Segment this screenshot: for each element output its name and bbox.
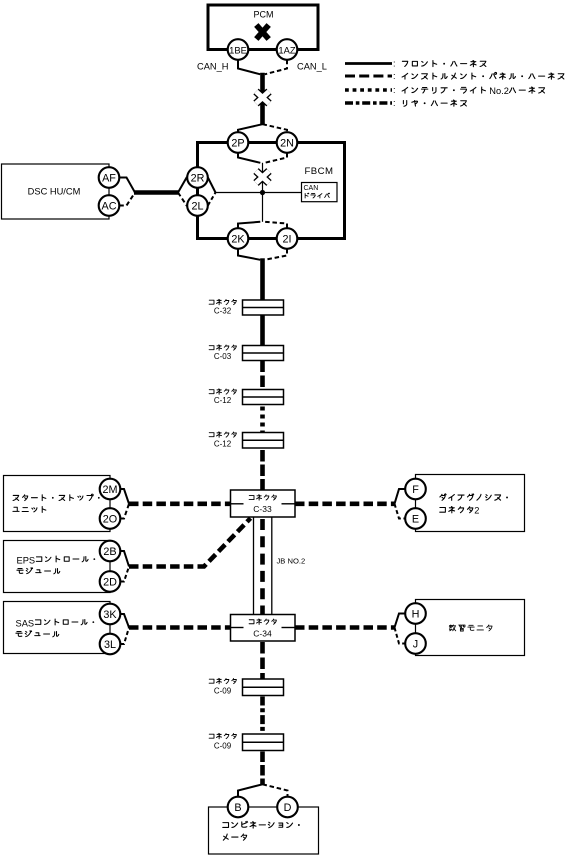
svg-text:3K: 3K xyxy=(103,609,117,621)
junction node dot xyxy=(260,190,265,195)
svg-text:2P: 2P xyxy=(231,137,244,149)
svg-text:3L: 3L xyxy=(104,639,116,651)
wire to 2L (dashed) xyxy=(178,193,187,206)
connector C-32 xyxy=(243,300,284,315)
wire C-32 to C-03 (solid) xyxy=(260,315,265,346)
svg-text:2L: 2L xyxy=(191,200,203,212)
wire C-12 to C-12 (dotted) xyxy=(260,407,265,433)
svg-text:2: 2 xyxy=(474,505,479,515)
connector box C-33 xyxy=(231,490,296,517)
svg-text:B: B xyxy=(234,802,241,814)
wire to E (dashed) xyxy=(395,504,406,519)
svg-text:2M: 2M xyxy=(103,484,118,496)
label konekuta C-12 lower xyxy=(209,432,236,437)
connector circle F xyxy=(405,479,426,500)
wire CAN_H from 1BE (front harness, solid) xyxy=(238,60,260,75)
ECU box combination meter xyxy=(209,807,319,854)
ECU box EPS control module xyxy=(4,541,111,593)
svg-text:CAN_H: CAN_H xyxy=(197,62,229,72)
wire inside FBCM from 2L (dashed) xyxy=(208,193,216,206)
label konekuta C-09 upper xyxy=(209,678,236,683)
connector circle 2L xyxy=(187,195,208,216)
wire from 2O (dashed) xyxy=(120,504,129,519)
wire internal vertical to CAN driver node xyxy=(262,163,264,222)
ECU box diagnosis connector 2 xyxy=(416,475,525,532)
ECU box FBCM xyxy=(198,143,345,239)
wire C-09 to meter (dashed) xyxy=(260,752,265,785)
wire C-34 to C-09 (dashed) xyxy=(260,642,265,679)
wire to J (dashed) xyxy=(395,628,406,644)
wire DSC to FBCM thick bus xyxy=(134,190,179,195)
svg-text:E: E xyxy=(412,513,419,525)
svg-text:AF: AF xyxy=(102,172,116,184)
label SAS line2 xyxy=(16,631,59,637)
connector circle 2K xyxy=(228,228,249,249)
svg-text::: : xyxy=(393,71,396,81)
abnormal X mark inside FBCM xyxy=(256,171,269,183)
wire C-33 to C-34 inside JB (dashed thick) xyxy=(260,519,265,614)
wire C-09 to C-09 (dash-dot rear harness) xyxy=(260,697,265,735)
svg-text:D: D xyxy=(284,802,292,814)
wire from 2M (solid) xyxy=(120,489,129,504)
label konekuta C-32 xyxy=(209,299,236,304)
connector circle 2M xyxy=(100,479,121,500)
svg-text:CAN: CAN xyxy=(304,185,319,192)
label konekuta C-34 xyxy=(249,619,276,624)
wire C-33 to diagnosis (dashed thick) xyxy=(295,501,395,506)
svg-text:C-12: C-12 xyxy=(214,396,232,405)
wire from 2D (dashed) xyxy=(120,567,129,582)
wire FBCM to C-32 (front harness solid) xyxy=(260,258,265,300)
wire inside FBCM from 2P (solid) xyxy=(238,153,260,163)
svg-text:2O: 2O xyxy=(103,513,117,525)
svg-text:PCM: PCM xyxy=(254,9,274,19)
connector circle AF xyxy=(99,167,120,188)
stub right inside C-33 xyxy=(282,503,296,505)
wire 2I split (dashed) xyxy=(265,249,287,260)
wire from 3K (solid) xyxy=(120,614,129,628)
connector circle H xyxy=(405,603,426,624)
connector C-09 lower xyxy=(243,734,284,751)
connector circle J xyxy=(405,633,426,654)
connector C-09 upper xyxy=(243,679,284,696)
svg-text:C-12: C-12 xyxy=(214,440,232,449)
svg-text:No.2: No.2 xyxy=(489,86,509,96)
connector circle 2O xyxy=(100,508,121,529)
legend dashed instrument panel harness xyxy=(345,75,392,78)
wire inside FBCM to 2K (solid) xyxy=(238,222,260,228)
wire C-34 to monitor (dashed thick) xyxy=(295,625,395,630)
svg-text:2K: 2K xyxy=(231,233,245,245)
abnormal X mark on bus xyxy=(256,92,269,104)
wire EPS to C-33 (dashed thick) xyxy=(129,518,251,566)
legend solid front harness xyxy=(345,62,392,65)
legend dash-dot rear harness xyxy=(345,101,392,104)
connector circle 2D xyxy=(100,571,121,592)
connector circle 3K xyxy=(100,604,121,625)
connector circle 2R xyxy=(187,167,208,188)
wire to 2R (solid) xyxy=(178,178,187,193)
wire from AF (solid) xyxy=(119,178,135,193)
ECU box SAS control module xyxy=(4,602,111,654)
connector circle 2N xyxy=(277,132,298,153)
wire split to B (solid) xyxy=(238,784,263,797)
svg-text:2N: 2N xyxy=(280,137,294,149)
label diagnosis line2 xyxy=(440,507,473,513)
wire from AC (dashed) xyxy=(119,193,135,206)
svg-text::: : xyxy=(393,85,396,95)
label meter line1 xyxy=(223,821,300,828)
fault X mark on PCM xyxy=(256,25,268,39)
wire C-03 to C-12 (dashed) xyxy=(260,361,265,390)
wire CAN_L from 1AZ (dashed) xyxy=(265,60,287,75)
connector circle 1BE on PCM xyxy=(228,39,249,60)
JB No.2 channel right wall xyxy=(271,518,273,615)
svg-text:FBCM: FBCM xyxy=(305,166,334,177)
wire inside FBCM to 2I (dashed) xyxy=(265,222,287,228)
svg-text:CAN_L: CAN_L xyxy=(297,62,327,72)
svg-text:C-33: C-33 xyxy=(253,504,272,514)
ECU box training monitor xyxy=(416,600,525,656)
connector C-12 upper xyxy=(243,390,284,405)
wire to H (solid) xyxy=(395,614,406,628)
connector box C-34 xyxy=(231,615,296,642)
svg-text:C-09: C-09 xyxy=(214,742,232,751)
wire internal horizontal to CAN driver xyxy=(216,192,302,194)
connector circle 1AZ on PCM xyxy=(277,39,298,60)
wire SAS to C-34 (dashed thick) xyxy=(129,625,231,630)
svg-text:2D: 2D xyxy=(103,576,117,588)
connector circle B xyxy=(228,797,249,818)
svg-text:2I: 2I xyxy=(282,233,291,245)
wire split to D (dashed) xyxy=(263,784,288,797)
svg-text:2R: 2R xyxy=(191,172,205,184)
wire 2K split (solid) xyxy=(238,249,260,260)
legend dotted interior light No.2 harness xyxy=(345,88,392,92)
svg-text:C-32: C-32 xyxy=(214,307,232,316)
svg-text:AC: AC xyxy=(102,200,117,212)
wire split to 2P (solid) xyxy=(238,124,263,133)
wire from 3L (dashed) xyxy=(120,628,129,645)
JB No.2 channel left wall xyxy=(253,518,255,615)
label konekuta C-33 xyxy=(249,495,276,500)
connector circle 2B xyxy=(100,541,121,562)
svg-text:DSC HU/CM: DSC HU/CM xyxy=(28,187,81,197)
connector C-12 lower xyxy=(243,433,284,449)
ECU box PCM xyxy=(208,5,318,50)
wire split to 2N (dashed) xyxy=(263,124,288,133)
connector circle 2P xyxy=(228,132,249,153)
stub left inside C-33 xyxy=(231,503,244,505)
svg-text::: : xyxy=(393,98,396,108)
connector circle AC xyxy=(99,195,120,216)
svg-text:C-34: C-34 xyxy=(253,628,272,638)
svg-text:F: F xyxy=(412,484,419,496)
svg-text::: : xyxy=(393,59,396,69)
label diagnosis line1 xyxy=(440,494,508,500)
svg-text:J: J xyxy=(413,638,418,650)
svg-text:1AZ: 1AZ xyxy=(278,44,295,55)
stub left inside C-34 xyxy=(231,627,244,629)
label konekuta C-03 xyxy=(209,345,236,350)
wire to F (solid) xyxy=(395,489,406,504)
wire from 2B (solid) xyxy=(120,551,129,567)
connector circle 3L xyxy=(100,634,121,655)
svg-text:2B: 2B xyxy=(103,546,116,558)
ECU box DSC HU/CM xyxy=(2,164,110,219)
label start-stop line1 xyxy=(13,494,100,501)
stub right inside C-34 xyxy=(282,627,296,629)
svg-text:C-03: C-03 xyxy=(214,352,232,361)
label meter line2 xyxy=(223,834,246,840)
connector circle 2I xyxy=(277,228,298,249)
wire start-stop to C-33 (dashed thick) xyxy=(129,501,231,506)
wire CAN bus PCM to FBCM (thick) xyxy=(260,73,265,125)
label konekuta C-09 lower xyxy=(209,733,236,738)
label driver katakana xyxy=(305,193,329,198)
label EPS line2 xyxy=(17,568,60,574)
svg-text:H: H xyxy=(412,608,420,620)
connector circle D xyxy=(277,797,298,818)
label start-stop line2 xyxy=(13,507,46,513)
svg-text:EPS: EPS xyxy=(17,555,36,565)
connector C-03 xyxy=(243,346,284,361)
wire inside FBCM from 2N (dashed) xyxy=(265,153,287,163)
svg-text:SAS: SAS xyxy=(16,618,35,628)
svg-text:1BE: 1BE xyxy=(229,44,247,55)
svg-text:JB NO.2: JB NO.2 xyxy=(277,557,306,566)
label konekuta C-12 upper xyxy=(209,389,236,394)
ECU box start-stop unit xyxy=(4,476,111,532)
CAN driver box xyxy=(302,183,338,202)
connector circle E xyxy=(405,508,426,529)
wire C-12 to C-33 (dashed) xyxy=(260,450,265,490)
svg-text:C-09: C-09 xyxy=(214,687,232,696)
label training monitor xyxy=(449,625,492,631)
wire inside FBCM from 2R (solid) xyxy=(208,178,216,193)
